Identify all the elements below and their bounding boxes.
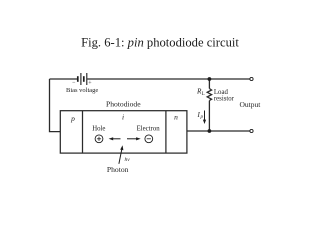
wire bottom to output terminal [209,130,250,132]
circled minus (electron) [145,135,153,143]
p-i partition [82,111,84,153]
svg-text:Photodiode: Photodiode [106,100,141,109]
output terminal bottom [250,129,253,132]
svg-text:Bias voltage: Bias voltage [66,87,98,94]
photon arrow [119,145,124,164]
photodiode box [60,111,187,153]
resistor RL bottom lead [208,101,210,131]
svg-text:L: L [202,92,205,97]
circled plus (hole) [95,135,103,143]
wire photodiode to load resistor node [187,130,210,132]
wire top right segment [87,78,250,80]
svg-text:i: i [122,112,124,121]
svg-text:Hole: Hole [92,126,105,133]
svg-text:+: + [88,81,92,87]
wire top left segment [50,78,78,80]
svg-text:Output: Output [240,100,262,109]
output terminal top [250,77,253,80]
svg-text:Photon: Photon [107,165,129,174]
svg-text:Fig. 6-1: pin photodiode circu: Fig. 6-1: pin photodiode circuit [81,36,239,50]
svg-text:resistor: resistor [214,95,235,102]
i-n partition [165,111,167,153]
resistor RL zigzag [207,89,211,101]
svg-text:n: n [174,113,178,122]
svg-text:p: p [70,114,75,123]
svg-text:p: p [200,115,204,120]
battery bias voltage [78,73,87,85]
wire left loop down into photodiode [50,79,61,132]
junction node top [208,77,212,81]
junction node bottom [208,129,212,133]
svg-text:hν: hν [125,157,131,163]
hole drift arrow (left) [109,137,121,140]
photocurrent Ip arrow [203,111,206,125]
svg-text:−: − [72,80,76,86]
resistor RL top lead [208,79,210,89]
svg-text:Electron: Electron [137,125,161,132]
electron drift arrow (right) [127,137,141,140]
